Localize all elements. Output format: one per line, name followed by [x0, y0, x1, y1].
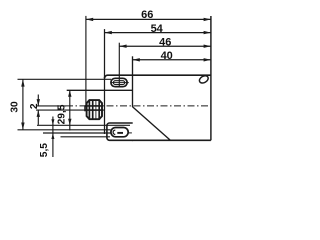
svg-text:46: 46	[159, 37, 171, 49]
svg-text:54: 54	[151, 23, 164, 35]
svg-text:29,5: 29,5	[56, 104, 67, 124]
svg-text:66: 66	[141, 9, 153, 21]
svg-text:5,5: 5,5	[39, 143, 50, 157]
svg-text:30: 30	[10, 101, 21, 113]
svg-text:2: 2	[29, 103, 40, 109]
svg-text:40: 40	[161, 50, 173, 62]
